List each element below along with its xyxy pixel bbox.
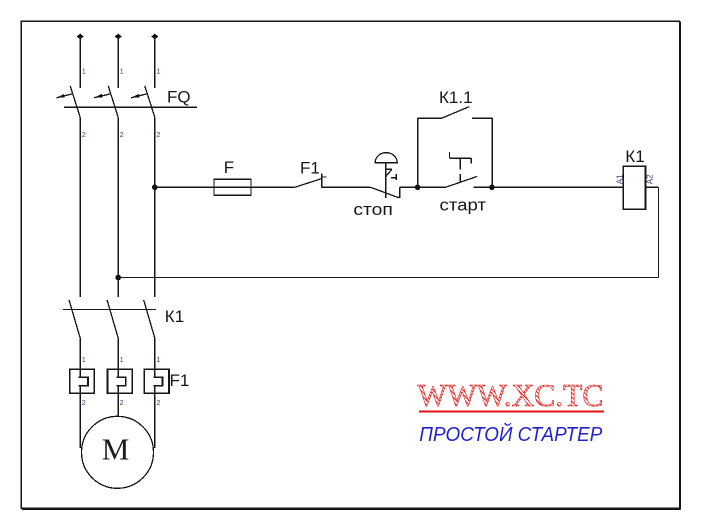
svg-text:F: F (224, 158, 234, 177)
svg-text:A2: A2 (646, 174, 655, 184)
svg-text:1: 1 (82, 355, 86, 364)
contactor K1 pole 2 (107, 300, 118, 338)
svg-text:1: 1 (82, 66, 86, 75)
contactor K1 linkage bar (63, 308, 156, 310)
svg-text:2: 2 (156, 398, 160, 407)
svg-text:A1: A1 (616, 174, 625, 184)
svg-text:2: 2 (82, 130, 86, 139)
pushbutton старт actuator (449, 152, 471, 182)
svg-text:1: 1 (156, 66, 160, 75)
svg-text:2: 2 (82, 398, 86, 407)
node B junction (489, 185, 495, 191)
contact стоп (NC) (371, 187, 400, 198)
contactor K1 pole 1 (69, 300, 80, 338)
svg-text:WWW.XC.TC: WWW.XC.TC (417, 377, 603, 413)
svg-text:К1.1: К1.1 (439, 88, 473, 107)
svg-text:2: 2 (156, 130, 160, 139)
svg-text:1: 1 (120, 66, 124, 75)
breaker FQ linkage bar (64, 106, 197, 108)
svg-text:2: 2 (120, 398, 124, 407)
node control tap on L3 (152, 185, 158, 191)
wire start to coil (473, 186, 623, 188)
wire to motor L2 (117, 386, 119, 417)
wire L2 lower (117, 338, 119, 377)
wire L2 upper (117, 37, 119, 89)
wire stop to node A (400, 186, 446, 188)
svg-text:стоп: стоп (353, 200, 393, 219)
auxiliary contact K1.1 branch (418, 107, 493, 188)
wire to motor L3 (154, 386, 156, 448)
wire to motor L1 (79, 386, 81, 448)
wire F1 to stop (322, 186, 371, 188)
contact F1 (NC thermal relay contact) (295, 174, 327, 188)
wire L3 lower (154, 338, 156, 377)
contact старт (NO) (446, 176, 478, 187)
thermal relay F1 element 2 (108, 369, 133, 393)
circuit breaker FQ pole 1 (56, 86, 80, 117)
coil K1 (623, 166, 645, 209)
phase L1 terminal diamond (77, 34, 84, 40)
svg-text:F1: F1 (300, 159, 320, 178)
wire L1 middle (79, 117, 81, 296)
svg-text:К1: К1 (165, 307, 184, 326)
svg-text:FQ: FQ (167, 87, 191, 106)
circuit breaker FQ pole 3 (131, 86, 155, 117)
svg-text:старт: старт (440, 196, 487, 215)
svg-text:1: 1 (156, 355, 160, 364)
svg-text:М: М (102, 431, 130, 466)
node return to L2 (115, 275, 121, 281)
watermark red underline (419, 410, 604, 412)
wire L3 middle (154, 117, 156, 296)
svg-text:2: 2 (120, 130, 124, 139)
fuse F (214, 179, 251, 195)
phase L2 terminal diamond (115, 34, 122, 40)
contactor K1 pole 3 (144, 300, 155, 338)
svg-text:F1: F1 (170, 371, 190, 390)
wire control line left (155, 186, 295, 188)
circuit breaker FQ pole 2 (94, 86, 118, 117)
svg-text:1: 1 (120, 355, 124, 364)
svg-text:ПРОСТОЙ СТАРТЕР: ПРОСТОЙ СТАРТЕР (419, 423, 603, 446)
wire L3 upper (154, 37, 156, 89)
pushbutton стоп (mushroom head) (375, 153, 397, 198)
phase L3 terminal diamond (151, 34, 158, 40)
motor M circle (82, 416, 154, 488)
thermal relay F1 element 1 (70, 369, 95, 393)
wire L2 middle (117, 117, 119, 296)
node A junction (415, 185, 421, 191)
svg-text:К1: К1 (625, 147, 644, 166)
thermal relay F1 element 3 (144, 369, 169, 393)
wire L1 upper (79, 37, 81, 89)
wire coil return (118, 187, 658, 277)
wire L1 lower (79, 338, 81, 377)
